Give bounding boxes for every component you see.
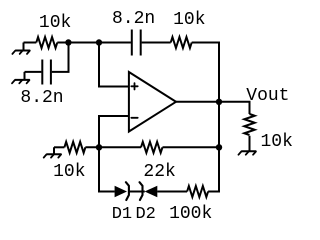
svg-text:Vout: Vout (246, 86, 289, 106)
svg-text:10k: 10k (39, 13, 71, 33)
svg-text:22k: 22k (143, 162, 175, 182)
svg-text:8.2n: 8.2n (112, 9, 155, 29)
svg-text:10k: 10k (260, 132, 292, 152)
svg-text:8.2n: 8.2n (20, 88, 63, 108)
svg-text:10k: 10k (173, 10, 205, 30)
svg-text:100k: 100k (169, 204, 212, 224)
svg-text:D2: D2 (135, 205, 155, 224)
svg-text:10k: 10k (53, 162, 85, 182)
svg-text:D1: D1 (112, 205, 132, 224)
